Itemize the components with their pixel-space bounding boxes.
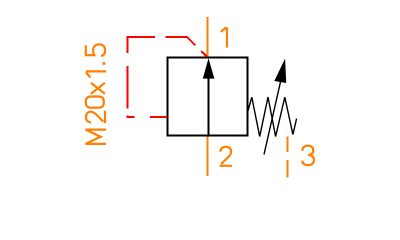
port 3 dashed orange line	[287, 137, 289, 178]
pilot dash top-left corner	[128, 37, 156, 53]
thread label: 5	[86, 44, 105, 56]
pilot dash at box left	[150, 116, 167, 118]
pilot line (red dashed)	[128, 37, 208, 117]
pilot dash diagonal end	[201, 51, 207, 57]
spring (zigzag)	[248, 97, 297, 137]
thread label: 0	[86, 97, 104, 108]
thread label: x	[91, 83, 105, 94]
labels (CAD stroke font), orange	[86, 27, 314, 165]
flow arrow head	[203, 58, 215, 78]
label port 2	[220, 147, 232, 166]
valve body box	[168, 58, 248, 136]
wire: port 1 line (orange, top)	[207, 17, 209, 57]
adjustment arrow shaft	[264, 81, 281, 155]
thread label: 2	[86, 111, 105, 123]
thread label: 1	[86, 71, 106, 77]
label port 3	[302, 146, 314, 165]
adjustment arrow head	[274, 59, 286, 84]
pilot dash left vertical	[127, 66, 129, 109]
thread label M20x1.5 rotated: M	[86, 130, 107, 144]
wire: port 2 line (orange, bottom)	[207, 136, 209, 177]
pilot dash bottom-left corner	[128, 116, 135, 117]
flow arrow shaft inside box	[208, 77, 210, 135]
pilot dash top-right + diagonal	[166, 37, 196, 46]
label port 1	[221, 27, 227, 47]
thread label: decimal point	[103, 62, 106, 65]
